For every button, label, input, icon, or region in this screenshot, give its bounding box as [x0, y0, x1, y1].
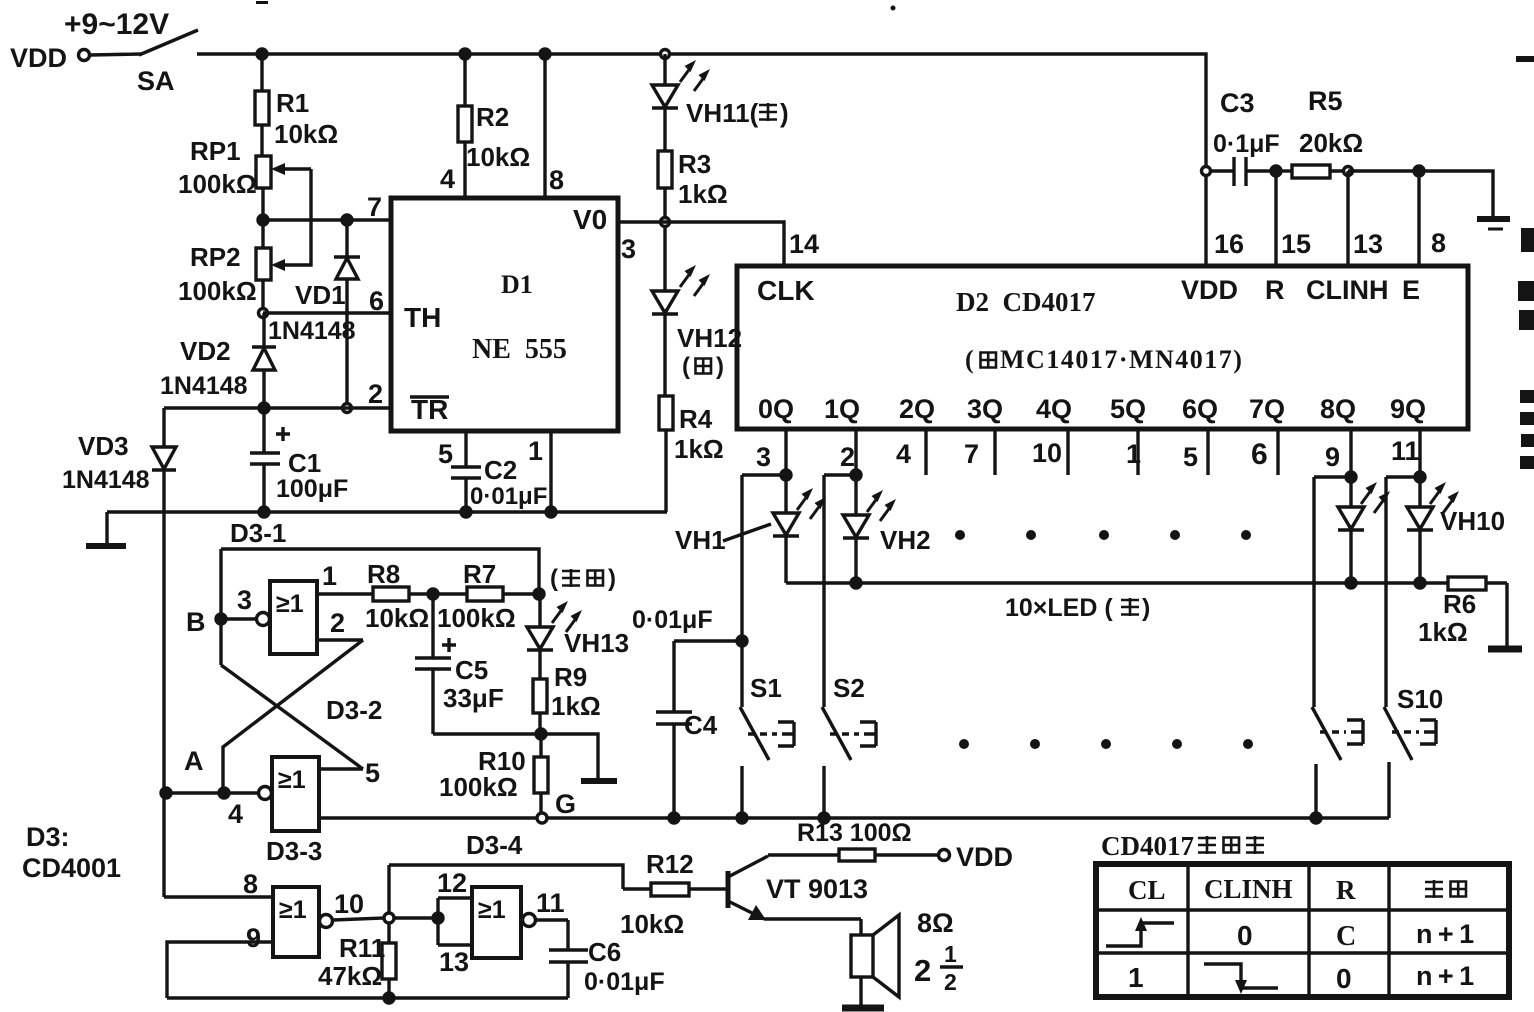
resistor R10 [534, 734, 548, 813]
node terminal [1202, 167, 1211, 176]
node junction [819, 813, 829, 823]
svg-text:4: 4 [440, 164, 455, 194]
svg-text:VDD: VDD [10, 43, 67, 73]
node junction [1415, 578, 1425, 588]
svg-text:CLINH: CLINH [1306, 275, 1389, 305]
label 输出 [1425, 880, 1466, 898]
wire cross diagonal upper-left to lower-right [221, 665, 363, 769]
svg-text:0·01μF: 0·01μF [470, 483, 547, 510]
svg-text:RP2: RP2 [190, 242, 241, 272]
LED VH9 [1338, 477, 1364, 583]
svg-text:≥1: ≥1 [279, 896, 307, 924]
ground [86, 512, 126, 546]
symbol falling edge [1204, 964, 1278, 994]
label CD4017真值表 [1101, 831, 1264, 861]
svg-text:V0: V0 [573, 204, 607, 235]
svg-text:R5: R5 [1308, 86, 1343, 116]
node junction [1414, 166, 1424, 176]
svg-text:3: 3 [621, 234, 636, 264]
wire 9Q pin [1418, 429, 1421, 477]
wire pin 1 to R8 [317, 592, 373, 595]
svg-text:16: 16 [1214, 229, 1244, 259]
svg-text:VH12: VH12 [677, 323, 742, 353]
svg-text:2: 2 [368, 379, 383, 409]
svg-text:47kΩ: 47kΩ [318, 961, 382, 991]
wire [261, 220, 264, 248]
svg-text:1: 1 [1126, 439, 1141, 469]
gate D3-4 [472, 887, 536, 958]
resistor R12 [623, 883, 727, 896]
svg-text:CD4001: CD4001 [22, 853, 121, 883]
wire to S1 [742, 473, 786, 476]
node VDD terminal [939, 850, 950, 861]
wire pin 1 [549, 431, 552, 512]
svg-text:1: 1 [944, 941, 957, 967]
svg-text:1kΩ: 1kΩ [551, 691, 601, 721]
gate D3-2 [259, 757, 320, 831]
diode VD2 [252, 313, 276, 408]
resistor R4 [659, 396, 673, 430]
node junction [259, 507, 269, 517]
svg-text:10×LED (: 10×LED ( [1005, 594, 1113, 622]
switch S9 [1312, 477, 1341, 818]
svg-text:1N4148: 1N4148 [268, 317, 356, 345]
node junction [1311, 813, 1321, 823]
svg-text:D2 CD4017: D2 CD4017 [956, 287, 1096, 317]
wire [261, 280, 264, 313]
resistor R1 [255, 54, 269, 156]
node junction [669, 813, 679, 823]
node junction pin7 [258, 215, 268, 225]
wire pin 5 of D3-2 [319, 767, 363, 770]
wire to S10 [1386, 475, 1420, 478]
page edge artifacts [256, 1, 1534, 469]
svg-text:VD3: VD3 [78, 431, 129, 461]
svg-text:CLK: CLK [757, 275, 815, 306]
svg-text:8: 8 [243, 869, 258, 899]
wire [503, 592, 539, 595]
wire pin 10 output [333, 918, 384, 920]
pushbutton actuator S9 [1320, 720, 1363, 744]
wire output pin 3 to node B [221, 617, 256, 620]
svg-text:VH10: VH10 [1440, 506, 1505, 536]
wire pin 2 [164, 406, 391, 409]
wire feedback vertical [387, 865, 390, 943]
svg-text:≥1: ≥1 [278, 766, 306, 794]
svg-text:VH13: VH13 [564, 628, 629, 658]
wire to ground [1419, 171, 1493, 217]
svg-text:1kΩ: 1kΩ [678, 179, 728, 209]
wire RP1 wiper to RP2 wiper [282, 169, 311, 265]
wire pin 9 [167, 942, 273, 998]
svg-text:R6: R6 [1443, 589, 1476, 619]
svg-text:S2: S2 [833, 673, 865, 703]
node junction [1271, 166, 1281, 176]
svg-text:3: 3 [756, 442, 771, 472]
wire [663, 188, 666, 217]
svg-text:D3-3: D3-3 [266, 836, 322, 866]
svg-text:R1: R1 [276, 88, 309, 118]
wire [261, 188, 264, 220]
resistor R6 [1448, 577, 1507, 647]
svg-text:100kΩ: 100kΩ [439, 772, 518, 802]
svg-text:D3-4: D3-4 [466, 830, 523, 860]
svg-text:6: 6 [1251, 438, 1268, 471]
pushbutton actuator S2 [830, 722, 876, 746]
svg-text:≥1: ≥1 [276, 590, 304, 618]
wire feedback top [389, 865, 623, 889]
wire output pin 4 to node A [166, 791, 258, 794]
wire cross diagonal upper-right to lower-left [223, 640, 363, 793]
wire [538, 713, 541, 734]
svg-text:0Q: 0Q [758, 394, 794, 424]
svg-text:7: 7 [964, 439, 979, 469]
svg-text:+9~12V: +9~12V [64, 8, 169, 41]
wire [663, 108, 666, 151]
node terminal [259, 309, 268, 318]
op-amp/timer D1 NE555 box [391, 198, 618, 431]
svg-text:100kΩ: 100kΩ [178, 276, 257, 306]
svg-text:A: A [184, 746, 204, 776]
wire pin 15 [1274, 171, 1277, 266]
resistor R5 [1276, 165, 1348, 178]
svg-text:D3-2: D3-2 [326, 695, 382, 725]
capacitor C3 [1211, 157, 1276, 186]
svg-text:R8: R8 [367, 559, 400, 589]
resistor R3 [658, 151, 672, 188]
ground [1477, 219, 1510, 229]
svg-text:C4: C4 [684, 710, 718, 740]
switch S10 [1384, 477, 1412, 818]
wire pin 2 of D3-1 [317, 638, 363, 641]
svg-text:8Ω: 8Ω [917, 908, 954, 938]
wire [409, 592, 467, 595]
wire ground rail [107, 510, 667, 513]
node terminal [384, 913, 394, 923]
resistor R9 [533, 679, 547, 713]
svg-text:100kΩ: 100kΩ [437, 603, 516, 633]
wire C5/R9 ground link [433, 734, 598, 779]
svg-text:2: 2 [840, 442, 855, 472]
svg-text:2: 2 [944, 969, 957, 995]
LED emission arrows VH10 [1430, 482, 1459, 513]
resistor R7 [467, 587, 503, 601]
wire 7Q stub [1276, 429, 1279, 475]
svg-text:VDD: VDD [1181, 275, 1238, 305]
svg-text:C6: C6 [588, 937, 621, 967]
svg-text:7Q: 7Q [1249, 394, 1285, 424]
wire to S2 [824, 473, 856, 476]
LED emission arrows VH13 [552, 601, 582, 632]
ground [842, 1005, 884, 1012]
wire [663, 314, 666, 396]
resistor R11 [382, 943, 396, 998]
switch S2 [822, 475, 851, 818]
wire 0Q pin [784, 429, 787, 475]
LED emission arrows VH11 [680, 60, 710, 91]
resistor R2 and pin 4 wire [458, 54, 472, 198]
LED VH10 [1407, 477, 1433, 583]
svg-text:2: 2 [330, 608, 345, 638]
wire bottom bus (pin 6 of D3-2 / G line) [319, 816, 1389, 819]
svg-text:CD4017: CD4017 [1101, 831, 1194, 861]
LED VH2 [843, 475, 869, 583]
pushbutton actuator S10 [1392, 720, 1436, 744]
svg-text:20kΩ: 20kΩ [1299, 128, 1363, 158]
svg-text:5: 5 [438, 439, 453, 469]
wire LED cathode bus [786, 581, 1448, 584]
svg-text:D1: D1 [501, 270, 533, 299]
node junction [534, 589, 544, 599]
diode VD1 [334, 220, 360, 405]
svg-text:4: 4 [228, 799, 243, 829]
svg-text:C3: C3 [1220, 88, 1255, 118]
node junction [257, 49, 267, 59]
wire 3Q stub [993, 429, 996, 475]
svg-text:CLINH: CLINH [1204, 874, 1293, 904]
node junction [433, 913, 443, 923]
label 2 1/2 [914, 941, 963, 995]
LED emission arrows VH2 [867, 490, 896, 521]
svg-text:R2: R2 [476, 102, 509, 132]
svg-text:D3-1: D3-1 [230, 518, 286, 548]
svg-text:R3: R3 [678, 149, 711, 179]
wire [1348, 169, 1419, 172]
IC D2 CD4017 box [737, 266, 1468, 429]
svg-text:R12: R12 [646, 849, 694, 879]
capacitor C1 [250, 408, 290, 512]
svg-text:CL: CL [1128, 875, 1166, 905]
node junction [1346, 578, 1356, 588]
svg-text:10kΩ: 10kΩ [466, 142, 530, 172]
svg-text:0: 0 [1336, 963, 1352, 994]
wire 5Q stub [1136, 429, 1139, 475]
svg-text:14: 14 [789, 229, 819, 259]
label TR (with overline) [410, 394, 449, 425]
svg-text:1kΩ: 1kΩ [1418, 617, 1468, 647]
node junction VD3 line [161, 788, 171, 798]
wire 1Q pin [854, 429, 857, 475]
svg-text:n + 1: n + 1 [1416, 919, 1474, 949]
transistor emitter with arrow [728, 901, 861, 935]
LED VH13 [527, 594, 553, 679]
node junction [259, 403, 269, 413]
svg-text:1Q: 1Q [824, 394, 860, 424]
svg-text:3Q: 3Q [967, 394, 1003, 424]
wire 2Q stub [924, 429, 927, 475]
svg-text:1N4148: 1N4148 [62, 466, 150, 494]
node junction [851, 470, 861, 480]
svg-text:VH2: VH2 [880, 525, 931, 555]
svg-text:C1: C1 [288, 448, 321, 478]
node junction [737, 636, 747, 646]
svg-text:VDD: VDD [956, 842, 1013, 872]
resistor R13 [839, 849, 938, 861]
svg-text:B: B [186, 607, 206, 637]
svg-text:(: ( [965, 345, 974, 374]
svg-text:13: 13 [1353, 229, 1383, 259]
node junction [461, 507, 471, 517]
svg-text:7: 7 [367, 192, 382, 222]
svg-text:0·01μF: 0·01μF [632, 606, 713, 634]
svg-text:1: 1 [1128, 962, 1144, 993]
wire to S9 [1314, 475, 1351, 478]
node junction [1346, 472, 1356, 482]
svg-text:S10: S10 [1397, 684, 1443, 714]
LED VH12 [652, 226, 678, 314]
ground [581, 778, 617, 784]
node junction [460, 49, 470, 59]
wire pin 8 [543, 54, 546, 198]
svg-text:VH1: VH1 [675, 525, 726, 555]
svg-text:13: 13 [439, 947, 469, 977]
svg-text:C: C [1336, 921, 1356, 952]
wire top supply rail [197, 54, 1206, 266]
potentiometer RP2 [256, 248, 285, 280]
wire pin 7 [263, 218, 391, 221]
label (延时) [550, 565, 616, 592]
svg-text:6Q: 6Q [1182, 394, 1218, 424]
wire 555 V0 to CD4017 CLK [618, 222, 784, 266]
svg-text:15: 15 [1281, 229, 1311, 259]
switch SA [139, 30, 198, 55]
node junction [851, 578, 861, 588]
svg-text:MC14017·MN4017): MC14017·MN4017) [1000, 345, 1243, 374]
svg-text:NE 555: NE 555 [472, 334, 567, 365]
capacitor C4 [656, 641, 742, 818]
svg-text:8: 8 [1431, 228, 1446, 258]
gate D3-1 [257, 581, 318, 654]
svg-text:2Q: 2Q [899, 394, 935, 424]
svg-text:VT 9013: VT 9013 [766, 874, 868, 904]
svg-text:R: R [1265, 275, 1285, 305]
wire pin 6 [263, 311, 391, 314]
speaker [851, 915, 899, 1006]
svg-text:RP1: RP1 [190, 136, 241, 166]
gate D3-3 [273, 887, 333, 957]
label 10 x LED (红) [1005, 594, 1150, 622]
wire [664, 430, 667, 512]
wire [90, 54, 141, 55]
LED VH11 [652, 54, 678, 108]
node junction [342, 215, 352, 225]
svg-text:5Q: 5Q [1110, 394, 1146, 424]
svg-text:SA: SA [137, 66, 175, 96]
node VDD terminal [79, 50, 90, 61]
svg-text:8: 8 [549, 165, 564, 195]
svg-text:100kΩ: 100kΩ [178, 169, 257, 199]
svg-text:10kΩ: 10kΩ [620, 909, 684, 939]
wire to pin 8 [164, 895, 273, 898]
svg-text:VH11(: VH11( [686, 98, 759, 128]
ground [1488, 646, 1522, 653]
symbol rising edge [1106, 917, 1174, 946]
svg-text:R9: R9 [554, 662, 587, 692]
node junction [428, 589, 438, 599]
svg-text:5: 5 [1183, 442, 1198, 472]
svg-text:): ) [716, 353, 724, 380]
svg-text:R7: R7 [463, 559, 496, 589]
svg-text:1: 1 [528, 436, 543, 466]
svg-text:10: 10 [1032, 438, 1062, 468]
svg-text:0: 0 [1237, 920, 1253, 951]
label VH1 with pointer [675, 524, 771, 555]
svg-text:0·1μF: 0·1μF [1213, 130, 1280, 158]
wire node B vertical [219, 549, 222, 665]
potentiometer RP1 [256, 156, 311, 188]
svg-text:R: R [1336, 875, 1356, 905]
svg-text:9: 9 [1325, 442, 1340, 472]
svg-text:10: 10 [334, 889, 364, 919]
pushbutton actuator S1 [748, 722, 794, 746]
svg-text:33μF: 33μF [443, 683, 504, 713]
node junction [546, 507, 556, 517]
node terminal VD1 pin2 [343, 404, 352, 413]
node B [216, 614, 226, 624]
svg-text:E: E [1402, 275, 1420, 305]
svg-text:10kΩ: 10kΩ [274, 119, 338, 149]
svg-text:1kΩ: 1kΩ [674, 434, 724, 464]
transistor VT9013 base bar [726, 871, 731, 908]
svg-text:5: 5 [365, 758, 380, 788]
wire latch top line [221, 549, 539, 592]
node junction [536, 729, 546, 739]
svg-text:9: 9 [246, 923, 261, 953]
resistor R8 [373, 587, 409, 601]
node terminal [1344, 167, 1353, 176]
capacitor C2 on pin 5 [451, 431, 481, 512]
svg-text:R13 100Ω: R13 100Ω [797, 819, 912, 847]
truth table CD4017 [1096, 864, 1509, 997]
svg-text:R4: R4 [679, 404, 713, 434]
svg-text:TH: TH [404, 302, 441, 333]
LED emission arrows VH12 [680, 265, 710, 296]
svg-text:8Q: 8Q [1320, 394, 1356, 424]
node junction [540, 49, 550, 59]
LED emission arrows VH9 [1361, 482, 1390, 513]
label VH11(红) [686, 98, 789, 128]
svg-text:(: ( [550, 565, 558, 592]
wire pin 13 [1346, 171, 1349, 266]
svg-text:11: 11 [536, 888, 565, 918]
svg-text:n + 1: n + 1 [1416, 961, 1474, 991]
wire 8Q pin [1349, 429, 1352, 477]
svg-text:11: 11 [1391, 436, 1420, 466]
svg-text:VD1: VD1 [295, 280, 346, 310]
svg-text:100μF: 100μF [276, 475, 348, 503]
svg-text:12: 12 [437, 868, 467, 898]
diode VD3 [152, 408, 176, 897]
svg-text:G: G [555, 789, 576, 819]
wire pin 8 of D2 [1417, 171, 1420, 266]
svg-text:10kΩ: 10kΩ [365, 603, 429, 633]
ellipsis dots switch row [959, 739, 1253, 749]
svg-text:2: 2 [914, 953, 931, 988]
svg-text:1N4148: 1N4148 [160, 372, 248, 400]
ellipsis dots LED row [955, 530, 1251, 540]
wire 6Q stub [1206, 429, 1209, 475]
svg-text:D3:: D3: [26, 822, 70, 852]
svg-text:(: ( [682, 353, 690, 380]
svg-text:1: 1 [322, 561, 337, 591]
svg-text:6: 6 [369, 286, 384, 316]
LED emission arrows VH1 [797, 488, 826, 519]
svg-text:R11: R11 [339, 933, 385, 963]
svg-text:S1: S1 [750, 673, 782, 703]
node junction VH11 tap [661, 50, 670, 59]
switch S1 [740, 475, 769, 818]
LED VH1 [773, 475, 799, 583]
